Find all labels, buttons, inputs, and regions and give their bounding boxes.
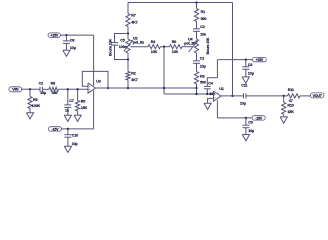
svg-text:R11: R11 (288, 88, 294, 92)
svg-text:C3: C3 (200, 25, 205, 29)
node junction (283, 95, 285, 97)
potentiometer U2 (124, 34, 145, 60)
ground (74, 111, 81, 121)
svg-text:C7: C7 (69, 99, 74, 103)
node junction (195, 93, 197, 95)
resistor R11 (288, 88, 301, 103)
resistor R5 (28, 89, 41, 108)
power +15V (253, 57, 267, 62)
capacitor C4 (204, 78, 218, 96)
svg-text:15K: 15K (287, 110, 294, 114)
node junction (195, 87, 197, 89)
power -15V (252, 116, 265, 121)
svg-text:500: 500 (201, 17, 207, 21)
svg-text:C11: C11 (241, 84, 247, 88)
svg-text:R7: R7 (131, 14, 136, 18)
svg-text:47: 47 (289, 99, 293, 103)
svg-text:10n: 10n (200, 32, 207, 36)
ground (204, 103, 211, 109)
svg-text:10µ: 10µ (70, 46, 76, 50)
svg-text:VIN: VIN (12, 87, 18, 92)
capacitor C2 (39, 82, 46, 96)
wire (196, 31, 198, 39)
op-amp U3 (88, 79, 101, 93)
node junction (76, 88, 78, 90)
label Bourn 10K (108, 39, 112, 56)
potentiometer U4 (184, 38, 198, 54)
capacitor C11 (240, 84, 248, 106)
node junction (29, 88, 31, 90)
wire U1 output (221, 95, 244, 97)
node junction (127, 58, 129, 60)
capacitor C9 (242, 118, 254, 133)
svg-text:Bourn 10K: Bourn 10K (206, 37, 210, 54)
wire lower to U1 (164, 93, 214, 95)
node junction (206, 93, 208, 95)
ground (64, 107, 71, 121)
wire (196, 3, 198, 9)
svg-text:500: 500 (200, 81, 206, 85)
svg-text:R5: R5 (33, 98, 38, 102)
ground (26, 109, 33, 119)
wire (127, 27, 129, 34)
svg-text:10µ: 10µ (40, 91, 46, 95)
svg-text:4K7: 4K7 (131, 20, 137, 24)
svg-text:R3: R3 (200, 75, 205, 79)
svg-text:U3: U3 (96, 79, 101, 83)
svg-text:R6: R6 (172, 40, 177, 44)
svg-text:C5: C5 (120, 39, 125, 43)
svg-text:pot_lin: pot_lin (184, 41, 196, 45)
port VIN (9, 87, 22, 92)
node junction (245, 58, 247, 60)
resistor R9 (76, 89, 88, 111)
node junction (163, 87, 165, 89)
wire (196, 53, 198, 61)
svg-text:-15V: -15V (255, 116, 263, 120)
svg-text:R8: R8 (51, 82, 56, 86)
svg-text:100K: 100K (32, 104, 41, 108)
svg-text:+15V: +15V (256, 58, 264, 62)
svg-text:C8: C8 (70, 38, 75, 42)
svg-text:10µ: 10µ (72, 142, 78, 146)
wire (217, 117, 252, 119)
capacitor C7 (64, 89, 74, 112)
wire (300, 95, 311, 97)
node junction (127, 32, 129, 34)
wire (182, 46, 192, 48)
wire (196, 84, 198, 94)
wire (22, 88, 41, 90)
node junction (107, 87, 109, 89)
wire U1 V- (216, 100, 218, 118)
wire mid vertical (163, 47, 165, 94)
node junction (195, 1, 197, 3)
resistor R8 (49, 82, 59, 96)
wire U3 output (96, 87, 197, 89)
wire (161, 46, 170, 48)
resistor R1 (194, 9, 206, 22)
resistor R2 (126, 60, 138, 89)
svg-text:10K: 10K (172, 50, 179, 54)
node junction (65, 34, 67, 36)
svg-text:R9: R9 (81, 100, 86, 104)
node junction (67, 88, 69, 90)
resistor R7 (126, 14, 138, 27)
capacitor C3 (193, 25, 207, 36)
ground (64, 137, 71, 152)
svg-text:10K: 10K (151, 50, 158, 54)
wire (196, 22, 198, 29)
wire C5 bypass loop (115, 34, 129, 60)
ground (242, 128, 249, 141)
node junction (163, 46, 165, 48)
resistor R6 (170, 40, 183, 54)
svg-text:330: 330 (52, 91, 58, 95)
node junction (231, 95, 233, 97)
wire U3 feedback (82, 71, 108, 88)
svg-text:10µ: 10µ (240, 102, 246, 106)
wire (59, 88, 89, 90)
resistor R4 (148, 40, 161, 54)
capacitor C8 (63, 35, 76, 50)
svg-text:R1: R1 (201, 10, 206, 14)
wire (127, 3, 129, 14)
node junction (127, 87, 129, 89)
svg-text:4K7: 4K7 (131, 78, 137, 82)
svg-text:Bourn 10K: Bourn 10K (108, 39, 112, 56)
ground (63, 43, 70, 56)
svg-text:C2: C2 (39, 82, 44, 86)
wire top feedback rail (128, 2, 233, 4)
svg-text:pot_lin: pot_lin (133, 41, 145, 45)
wire (196, 63, 198, 71)
wire (61, 35, 94, 86)
power +15V (48, 33, 61, 38)
svg-text:10µ: 10µ (200, 65, 206, 69)
svg-text:10n: 10n (209, 92, 216, 96)
svg-text:R10: R10 (287, 104, 293, 108)
wire (62, 91, 94, 129)
port VOUT (311, 93, 324, 98)
svg-text:15K: 15K (81, 106, 88, 110)
node junction (67, 128, 69, 130)
resistor R10 (282, 96, 295, 114)
svg-text:10µ: 10µ (248, 129, 254, 133)
wire U1 V+ (216, 60, 218, 78)
power -15V (49, 127, 62, 132)
svg-text:C9: C9 (248, 121, 253, 125)
svg-text:C10: C10 (72, 134, 78, 138)
ground (280, 114, 287, 123)
wire U2 wiper (130, 46, 148, 48)
node junction (245, 117, 247, 119)
svg-text:C6: C6 (248, 63, 253, 67)
svg-text:-15V: -15V (52, 127, 60, 131)
svg-text:10µ: 10µ (248, 72, 254, 76)
svg-text:VOUT: VOUT (313, 94, 323, 98)
wire (42, 88, 49, 90)
capacitor C6 (242, 60, 253, 76)
wire U1 + input (208, 98, 214, 103)
svg-text:C1: C1 (200, 56, 205, 60)
wire (217, 59, 252, 61)
svg-text:U1: U1 (219, 87, 224, 91)
ground (242, 69, 249, 83)
svg-text:+15V: +15V (50, 34, 58, 38)
label Bourn 10K (206, 37, 210, 54)
wire (246, 95, 288, 97)
svg-text:R2: R2 (131, 72, 136, 76)
capacitor C5 (111, 39, 128, 49)
op-amp U1 (214, 87, 224, 101)
capacitor C10 (64, 129, 78, 146)
wire feedback vertical (232, 3, 234, 96)
capacitor C1 (193, 56, 206, 68)
resistor R3 (194, 72, 206, 85)
